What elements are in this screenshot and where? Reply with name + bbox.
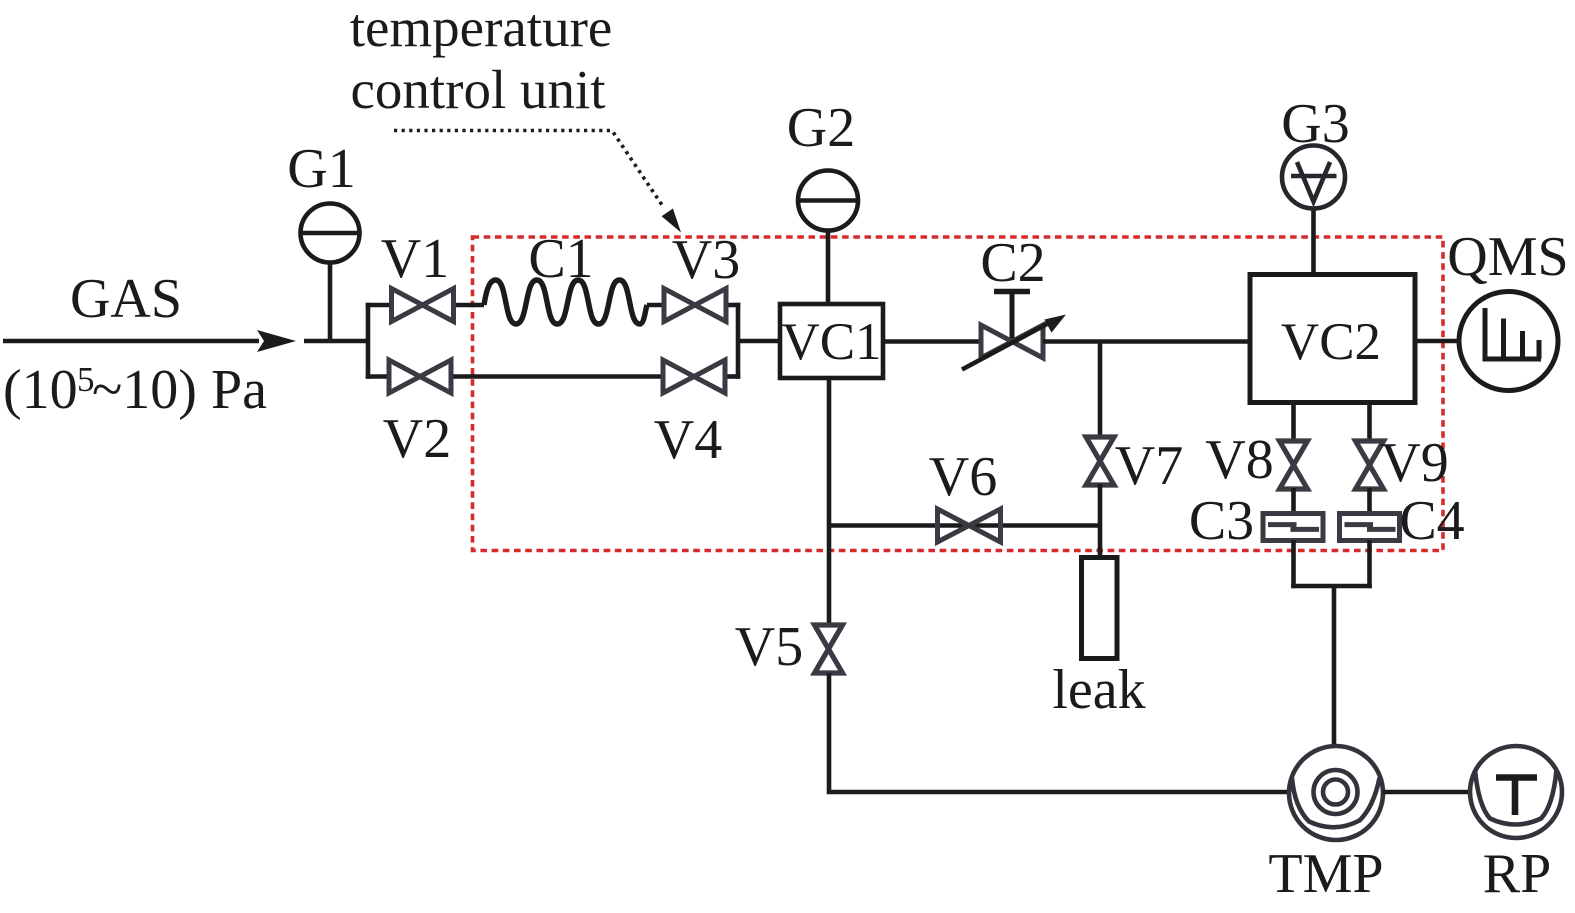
wire V9 to C4 (1367, 488, 1372, 514)
valve V9 (1356, 441, 1384, 489)
svg-text:C2: C2 (980, 232, 1045, 294)
valve V5 (815, 625, 843, 673)
wire V5 down to foreline (829, 673, 1289, 792)
svg-text:leak: leak (1052, 659, 1145, 721)
leak element (1082, 558, 1118, 659)
svg-text:V7: V7 (1115, 435, 1183, 497)
svg-text:C1: C1 (528, 228, 593, 290)
svg-text:temperature: temperature (350, 0, 613, 58)
pump RP (1470, 746, 1562, 838)
svg-text:V8: V8 (1205, 429, 1273, 491)
wire VC1 to C2 (883, 339, 981, 344)
gauge G3 (1282, 146, 1345, 275)
variable valve C2 (962, 292, 1066, 370)
wire C2 to VC2 (1043, 339, 1250, 344)
wire VC2 to V9 (1367, 403, 1372, 443)
wire VC2 to QMS (1415, 339, 1460, 344)
temperature control unit boundary (red dashed) (473, 237, 1444, 551)
gauge G1 (301, 204, 360, 342)
svg-text:V9: V9 (1380, 432, 1448, 494)
svg-text:VC1: VC1 (781, 313, 881, 371)
gauge G2 (798, 171, 858, 307)
arrowhead GAS flow (257, 330, 296, 352)
wire C3 C4 join to TMP (1291, 540, 1372, 748)
valve V7 (1086, 437, 1114, 485)
svg-text:V2: V2 (383, 408, 451, 470)
svg-text:~10) Pa: ~10) Pa (92, 359, 267, 421)
svg-text:GAS: GAS (70, 268, 182, 330)
svg-text:TMP: TMP (1268, 843, 1383, 905)
wire VC1 bottom stem (827, 378, 832, 626)
svg-text:control unit: control unit (350, 59, 605, 120)
wire V7 to leak (1098, 484, 1103, 558)
svg-text:(10: (10 (3, 359, 78, 421)
svg-text:G1: G1 (287, 138, 355, 200)
node left manifold junction (366, 303, 780, 379)
svg-text:V5: V5 (735, 616, 803, 678)
valve V6 (938, 509, 1001, 542)
svg-text:C4: C4 (1399, 490, 1464, 552)
analyzer QMS (1459, 292, 1558, 391)
sensor C3 (1263, 514, 1323, 541)
label temperature control unit (350, 0, 613, 120)
valve V2 (389, 360, 451, 393)
valve V1 (392, 289, 454, 322)
node GAS inlet wire (3, 339, 259, 344)
capillary coil C1 (484, 280, 647, 324)
svg-text:C3: C3 (1189, 490, 1254, 552)
svg-text:RP: RP (1483, 843, 1552, 905)
chamber VC1 (780, 304, 883, 378)
wire VC2 to V8 (1291, 403, 1296, 443)
wire inlet to manifold (304, 339, 370, 344)
wire junction down to V7 (1098, 342, 1103, 439)
svg-text:G2: G2 (787, 97, 855, 159)
svg-text:V1: V1 (381, 228, 449, 290)
svg-text:VC2: VC2 (1281, 313, 1381, 371)
wire V6 bypass line (829, 523, 1100, 528)
svg-text:V6: V6 (929, 446, 997, 508)
svg-text:V3: V3 (672, 229, 740, 291)
svg-text:G3: G3 (1281, 93, 1349, 155)
pump TMP (1289, 746, 1383, 840)
leader dotted arrow to control-unit box (394, 131, 681, 233)
valve V8 (1280, 441, 1308, 489)
chamber VC2 (1250, 275, 1415, 403)
sensor C4 (1340, 514, 1400, 541)
svg-text:QMS: QMS (1447, 226, 1568, 288)
valve V4 (663, 360, 725, 393)
wire V8 to C3 (1291, 488, 1296, 514)
wire TMP to RP (1383, 790, 1470, 795)
svg-text:V4: V4 (654, 409, 722, 471)
valve V3 (664, 289, 726, 322)
